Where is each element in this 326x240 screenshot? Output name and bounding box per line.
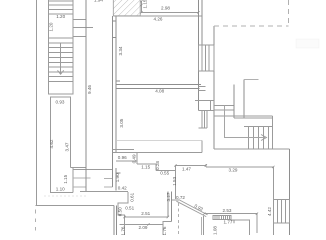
dim cascade riser 0.49 [136,152,138,164]
dim tie 187 [73,186,86,188]
sill tick [233,220,235,223]
vestibule lines [214,105,234,110]
dim cascade line 0.96 [116,160,137,162]
svg-text:3.05: 3.05 [119,118,124,127]
dim line 2.53 [204,213,257,215]
hatch dim ticks [140,0,142,6]
bath partition line [116,139,202,141]
svg-text:0.96: 0.96 [118,155,127,160]
svg-text:4.26: 4.26 [154,17,163,22]
svg-text:1.10: 1.10 [56,187,65,192]
diagonal wall line A [176,201,206,216]
landing tie line B [73,27,93,29]
wc lines [231,220,249,235]
dim tick 0.72 [172,199,179,201]
faint stamp box [296,39,319,48]
entry top faint line [244,79,259,81]
svg-text:0.55: 0.55 [160,171,169,176]
dim riser at hatch [140,1,142,12]
svg-text:0.49: 0.49 [131,154,136,163]
svg-text:1.76: 1.76 [162,226,167,235]
bath partition right connector [201,140,203,152]
svg-text:2.51: 2.51 [141,211,150,216]
right wall outer lower [213,116,215,149]
dim cascade line 0.55 [156,170,176,172]
wall tick [116,172,120,174]
closet box 0.93 [50,97,70,192]
svg-text:1.53: 1.53 [172,176,177,185]
window bay bottom right [273,199,289,223]
stair S1 outline [48,0,73,94]
svg-text:4.08: 4.08 [155,89,164,94]
svg-text:1.76: 1.76 [121,226,126,235]
dim ticks [123,11,274,226]
svg-text:1.15: 1.15 [141,165,150,170]
faint dotted line [44,195,88,197]
interior wall W2 upper [113,16,117,191]
dim tie 178 [73,177,90,179]
vestibule wall [233,85,235,119]
dim line 3.29 [206,166,273,168]
dashed door line [177,203,179,235]
bath wall vertical double [168,192,172,222]
terrace dashed outline horizontal [214,25,288,27]
right wall outer upper [201,0,203,45]
terrace dashed outline vertical [287,0,289,26]
main left wall [85,0,87,191]
landing tie line C [73,35,86,37]
stair S2 arrow head [261,135,267,141]
left boundary wall [35,0,37,205]
svg-text:2.09: 2.09 [139,225,148,230]
svg-text:0.72: 0.72 [176,195,185,200]
dim riser right [256,214,258,233]
corridor floor line [214,115,273,117]
svg-text:0.61: 0.61 [130,192,135,201]
dashed boundary continuation [35,210,37,235]
svg-text:1.08: 1.08 [213,226,218,235]
room line 2.09 [120,223,164,225]
dim jog [205,164,207,167]
stair S1 down arrow [58,70,64,74]
svg-text:4.62: 4.62 [49,139,54,148]
step below closet [71,168,113,193]
svg-text:9.46: 9.46 [87,85,92,94]
landing tie line A [73,18,86,20]
stair S2 treads [248,127,268,149]
svg-text:4.42: 4.42 [267,207,272,216]
exterior steps [198,110,214,128]
door jamb lines bottom [201,216,203,235]
dim cascade line 1.15 [137,163,156,165]
svg-text:1.77: 1.77 [224,220,233,225]
hatched sill [213,215,231,219]
stair S2 bottom wall [214,148,290,150]
right outer wall lower [288,149,290,235]
svg-text:1.20: 1.20 [56,14,65,19]
stair S1 walk line [60,43,62,74]
svg-text:0.50: 0.50 [118,207,123,216]
svg-text:3.29: 3.29 [229,168,238,173]
svg-text:1.15: 1.15 [63,174,68,183]
bottom-left boundary wall [36,204,115,206]
svg-text:1.15: 1.15 [143,0,148,9]
central room bottom wall A [113,149,135,151]
stair S1 lower treads [48,38,73,82]
hatched wall pier [113,0,140,16]
dim riser left [174,165,176,199]
diagonal wall line B [179,200,208,215]
svg-text:1.47: 1.47 [182,167,191,172]
window W1 in right wall [198,45,213,71]
svg-text:1.94: 1.94 [94,0,103,3]
dim line 1.47 [175,164,205,166]
svg-text:0.51: 0.51 [125,205,134,210]
dim cascade riser 0.28 [155,164,157,171]
stair S2 right edge [272,116,274,149]
dim line 2.51 [125,216,168,218]
svg-text:0.28: 0.28 [155,161,160,170]
dim line 2.98 [141,11,198,13]
svg-text:3.27: 3.27 [166,192,171,201]
right wall outer segment [213,26,215,45]
tie lines small [195,87,214,111]
stair S2 landing line [244,126,273,128]
top wall line [113,15,202,17]
right wall upper [197,0,199,110]
svg-text:2.98: 2.98 [161,6,170,11]
central room bottom wall B [113,151,202,153]
right wall outer below window [213,71,215,116]
wall return at bottom of left wall [50,191,73,193]
entry wall [243,80,245,119]
svg-text:3.34: 3.34 [118,46,123,55]
svg-text:1.20: 1.20 [49,22,54,31]
stair S2 walk arrow [224,105,265,137]
boundary to zigzag [80,191,128,193]
stair S1 upper treads [48,1,73,14]
svg-text:0.42: 0.42 [118,186,127,191]
svg-text:0.93: 0.93 [56,100,65,105]
svg-text:1.90: 1.90 [115,173,120,182]
lower-left room walls double [114,205,116,235]
svg-text:3.47: 3.47 [65,142,70,151]
bath wall bottom [163,222,172,236]
zigzag wall step [118,192,128,235]
middle cross wall double [116,81,201,88]
inner wall lower right [272,167,274,235]
landing top line [234,117,273,119]
svg-text:2.53: 2.53 [223,208,232,213]
